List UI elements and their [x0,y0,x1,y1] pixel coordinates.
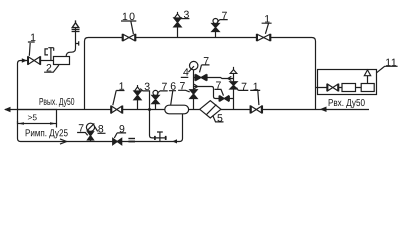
node label 7 leader (upper branch) [200,65,210,73]
wire relief branch riser [18,61,28,110]
node label 7 leader (main cock) [157,91,168,94]
manometer 4 [188,61,198,72]
svg-text:4: 4 [183,67,189,79]
wire vent riser B [233,73,235,109]
node flow chevron (upper branch, pointing left) [228,76,232,80]
svg-text:7: 7 [221,10,227,22]
purge cock (three-way) [154,132,166,141]
svg-text:7: 7 [179,80,185,92]
svg-text:10: 10 [122,11,135,23]
svg-text:7: 7 [162,81,168,93]
regulator 2 body [54,57,70,65]
node label 1 leader (main right) [250,90,260,105]
svg-text:7: 7 [216,80,222,92]
wire meter line [316,87,362,89]
valve 7 (upper vent branch) [195,74,207,81]
wire lower sample branch [194,87,234,99]
svg-text:1: 1 [253,81,259,93]
svg-text:Римп. Ду25: Римп. Ду25 [25,128,68,139]
wire relief pipe [40,60,53,62]
valve 7 (gauge cock on impulse line) [88,132,94,142]
dimension box >5 [18,110,57,124]
valve 9 [113,138,122,144]
svg-text:1: 1 [264,13,270,25]
svg-text:8: 8 [98,123,104,135]
svg-text:Рвх. Ду50: Рвх. Ду50 [328,98,365,109]
svg-text:11: 11 [385,57,397,69]
vent terminal triangle (relief stack) [72,20,79,27]
svg-text:7: 7 [241,81,247,93]
vent of meter unit [367,76,369,84]
meter body [342,84,356,92]
valve 7 (vent riser B) [230,82,237,89]
node label 9 leader [114,133,126,138]
node label 4 leader [181,76,189,78]
node dimension arrows [18,122,57,124]
svg-text:1: 1 [30,32,36,44]
svg-text:3: 3 [183,9,189,21]
node label 3 leader (main) + purge drop line [140,89,154,138]
svg-text:3: 3 [144,81,150,93]
union on impulse line [128,138,135,140]
node outlet flow arrow [4,107,11,112]
corrector body [361,84,374,92]
svg-text:1: 1 [119,81,125,93]
svg-text:7: 7 [203,55,209,67]
node impulse left arrow [172,139,177,143]
wire upper vent branch [194,78,234,79]
node label 7 leader (impulse gauge cock) [77,133,88,136]
silencer 6 [165,105,189,114]
node label 7 leader (bypass cock) [217,20,228,23]
valve 7 (bypass cock) [212,19,219,38]
valve 1 (bypass outlet) [257,34,271,41]
node label 10 leader [121,21,136,34]
valve 7 (lower sample branch) [219,96,229,102]
node label 1 leader [28,42,35,56]
wire bypass loop [85,38,316,110]
node label 1 leader (main left) [113,91,125,106]
wire main outlet/inlet line [5,109,369,111]
svg-text:6: 6 [170,81,176,93]
valve 7 (main line cock) [152,90,159,109]
node impulse flow chevron [60,139,67,144]
manometer 8 [86,123,94,131]
svg-text:Рвых. Ду50: Рвых. Ду50 [39,97,75,108]
node label 7 leader (manifold riser) [178,90,190,92]
valve 7 (manifold riser) [190,90,197,99]
svg-text:7: 7 [78,123,84,135]
node label 1 leader (bypass) [262,23,272,34]
svg-text:>5: >5 [28,112,38,122]
capped stub on vent riser [76,41,79,45]
node label 11 leader [377,66,398,73]
node label 3 leader (bypass) [180,18,190,20]
valve 1 (main line, left) [111,106,122,114]
svg-text:2: 2 [46,62,52,74]
valve 3 (bypass vent valve) [174,12,181,38]
valve 10 (bypass) [123,34,136,41]
node flow chevron (lower branch) [194,84,198,89]
union on vent riser [72,30,80,32]
valve (meter unit) [327,84,338,92]
meter unit 11 enclosure [318,70,377,95]
node label 2 leader [44,65,59,72]
valve 1 (main line, right) [250,105,262,113]
svg-text:5: 5 [217,112,223,124]
node inlet flow arrow [320,107,327,113]
node label 8 leader [95,127,106,134]
node relief flow arrow [22,58,27,62]
node label 7 leader (riser B) [237,88,249,91]
valve 1 (relief inlet) [28,56,40,65]
node junction purge drop [148,108,151,111]
diamond 5 [200,101,221,118]
wire vent riser from regulator 2 [66,28,75,57]
vent terminal triangle (riser B) [230,67,237,74]
svg-text:9: 9 [119,123,125,135]
node label 6 leader [169,91,176,105]
actuator bracket of safety valve [45,48,54,60]
node label 5 leader [213,116,224,122]
wire impulse line [18,114,183,142]
valve 3 (main line vent valve) [134,85,141,110]
node label 7 leader (lower branch) [215,89,224,95]
wire gauge manifold riser [193,70,195,110]
